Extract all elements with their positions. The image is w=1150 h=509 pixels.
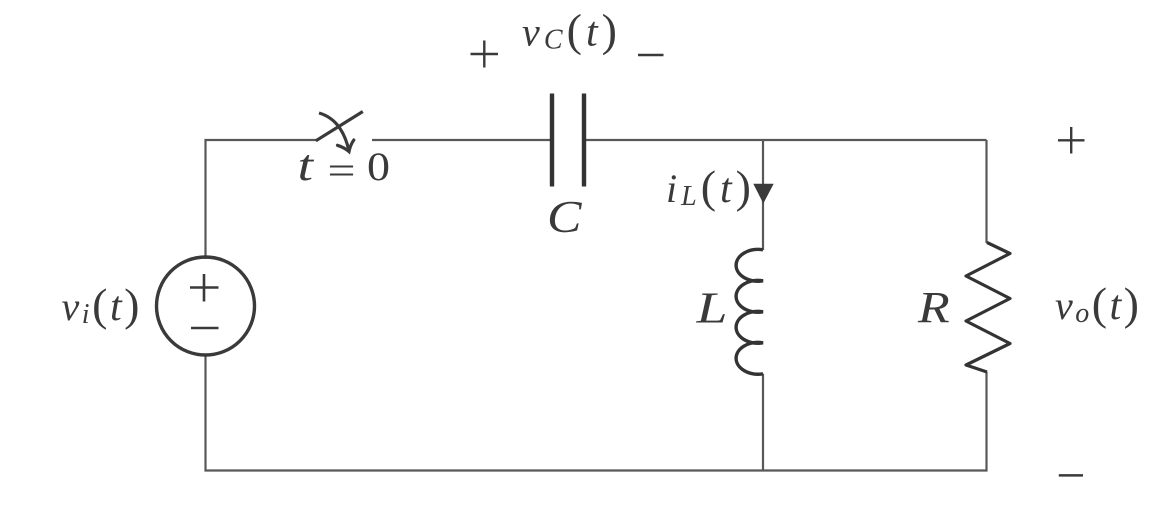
wire bottom-right: [763, 372, 987, 471]
switch arrowhead: [338, 140, 354, 152]
svg-text:t: t: [298, 141, 316, 190]
switch t=0: [316, 112, 363, 152]
svg-text:vC(t): vC(t): [522, 5, 617, 56]
svg-text:=: =: [328, 148, 356, 193]
inductor L: [736, 249, 763, 374]
wire left-bottom: [206, 355, 764, 471]
label - (output): [1059, 474, 1083, 477]
svg-text:vi(t): vi(t): [62, 279, 140, 330]
label + (capacitor): [471, 41, 499, 68]
wire capacitor-to-right-corner: [586, 139, 987, 141]
svg-text:L: L: [695, 284, 727, 333]
wire inductor-top: [762, 140, 764, 250]
voltage source V1: [157, 257, 255, 355]
wire right-top: [985, 140, 987, 243]
svg-text:C: C: [547, 191, 583, 242]
capacitor C: [552, 94, 584, 187]
wire top-left segment: [206, 140, 317, 259]
wire switch-to-capacitor: [372, 139, 550, 141]
svg-text:R: R: [917, 283, 950, 332]
svg-text:iL(t): iL(t): [666, 161, 751, 212]
current arrow i_L(t): [753, 184, 773, 204]
svg-text:0: 0: [367, 144, 390, 189]
label t = 0: [298, 141, 391, 193]
svg-text:vo(t): vo(t): [1055, 278, 1139, 329]
wire inductor-bottom: [762, 374, 764, 471]
resistor R: [966, 243, 1010, 373]
label - (capacitor): [638, 54, 664, 56]
label + (output): [1058, 127, 1085, 154]
